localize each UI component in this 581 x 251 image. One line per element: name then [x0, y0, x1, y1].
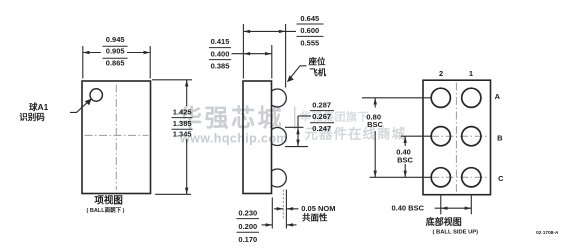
svg-text:BSC: BSC	[397, 155, 413, 164]
svg-text:0.170: 0.170	[238, 235, 257, 244]
svg-text:0.865: 0.865	[106, 59, 125, 68]
svg-text:2: 2	[439, 69, 443, 78]
svg-text:1.425: 1.425	[173, 107, 192, 116]
svg-text:BSC: BSC	[367, 120, 383, 129]
svg-text:0.267: 0.267	[312, 112, 331, 121]
svg-text:B: B	[497, 134, 503, 143]
svg-text:底部视图: 底部视图	[426, 216, 462, 227]
svg-text:( BALL面朝下 ): ( BALL面朝下 )	[87, 206, 125, 214]
svg-text:0.905: 0.905	[106, 47, 125, 56]
svg-text:座位: 座位	[307, 57, 326, 67]
svg-text:0.555: 0.555	[300, 38, 319, 47]
svg-text:1: 1	[469, 69, 473, 78]
svg-text:球A1: 球A1	[29, 102, 49, 112]
svg-text:1.385: 1.385	[173, 119, 192, 128]
svg-text:C: C	[498, 174, 504, 183]
svg-text:1.345: 1.345	[173, 130, 192, 139]
svg-text:0.415: 0.415	[211, 37, 230, 46]
svg-text:0.945: 0.945	[106, 35, 125, 44]
svg-text:0.385: 0.385	[211, 61, 230, 70]
svg-text:A: A	[495, 92, 501, 101]
svg-text:0.247: 0.247	[312, 124, 331, 133]
svg-text:项视图: 项视图	[94, 195, 123, 207]
svg-text:0.40 BSC: 0.40 BSC	[392, 204, 425, 213]
svg-text:共面性: 共面性	[302, 212, 328, 222]
svg-text:02 1708-A: 02 1708-A	[536, 230, 559, 236]
svg-text:0.600: 0.600	[300, 26, 319, 35]
svg-text:0.400: 0.400	[211, 50, 230, 59]
svg-text:0.200: 0.200	[238, 222, 257, 231]
svg-text:( BALL SIDE UP): ( BALL SIDE UP)	[432, 230, 478, 236]
svg-text:0.645: 0.645	[300, 14, 319, 23]
svg-text:识别码: 识别码	[19, 112, 45, 122]
svg-text:华强芯城: 华强芯城	[178, 104, 284, 132]
svg-text:0.230: 0.230	[238, 209, 257, 218]
svg-text:飞机: 飞机	[309, 68, 327, 78]
svg-text:0.287: 0.287	[312, 101, 331, 110]
